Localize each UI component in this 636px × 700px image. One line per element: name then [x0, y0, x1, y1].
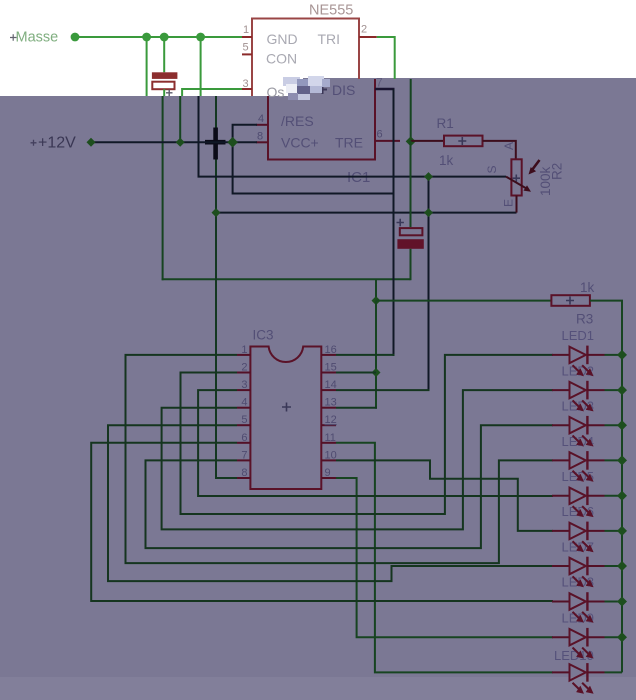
- wire IC3 pin7 to LED3: [146, 425, 554, 548]
- svg-text:R2: R2: [550, 163, 565, 180]
- capacitor C2 top plate (outline): [400, 228, 423, 235]
- junction dot E wire at masse branch: [212, 208, 221, 217]
- NE555 pin 7 DIS stub: [375, 88, 395, 90]
- wire C1 lower lead to +12V: [179, 96, 181, 142]
- wire R3 node down to IC3 pin15: [375, 301, 377, 409]
- capacitor C2 upper lead: [410, 141, 412, 227]
- svg-text:13: 13: [325, 397, 337, 409]
- svg-text:4: 4: [241, 397, 247, 409]
- svg-text:TRE: TRE: [335, 135, 363, 151]
- svg-text:3: 3: [243, 78, 249, 90]
- bottom lighter purple strip: [0, 677, 636, 700]
- wire gnd rail horizontal: [162, 278, 411, 280]
- NE555 pin 6 TRE stub: [375, 140, 400, 142]
- wire +12V horizontal: [91, 141, 257, 143]
- IC3 plus origin: [282, 403, 291, 412]
- svg-text:7: 7: [241, 449, 247, 461]
- wire pin6 node to R1: [411, 140, 444, 142]
- junction dot Masse branch 1: [142, 33, 151, 42]
- blur remnant marks left of DIS: [303, 86, 314, 89]
- wire DIS/VCC feed vertical to IC3 pin16: [393, 89, 395, 356]
- svg-text:2: 2: [361, 24, 367, 36]
- wire OUT from 555 pin3: [199, 96, 507, 177]
- svg-text:9: 9: [325, 467, 331, 479]
- svg-text:16: 16: [325, 344, 337, 356]
- counter IC3 box with notch: [250, 347, 321, 490]
- capacitor C1 bottom plate (outline): [152, 82, 174, 90]
- svg-text:Os: Os: [267, 84, 285, 100]
- resistor R3 body: [551, 295, 590, 306]
- svg-text:LED1: LED1: [562, 328, 595, 343]
- svg-text:GND: GND: [267, 31, 298, 47]
- wire C1 top lead: [163, 37, 165, 72]
- wire Masse branch 1 down: [146, 37, 148, 96]
- LED4: [552, 434, 627, 482]
- IC1 origin cross (black): [205, 128, 226, 160]
- purple region upper-right band: [303, 78, 636, 96]
- svg-text:R3: R3: [576, 312, 593, 327]
- wire R1 to pot A: [483, 141, 516, 159]
- svg-text:3: 3: [241, 379, 247, 391]
- svg-text:14: 14: [325, 379, 337, 391]
- NE555 pin 4 stub: [256, 124, 268, 126]
- wire Masse branch 2 down: [200, 37, 202, 96]
- junction dot Masse at C1: [160, 33, 169, 42]
- wire masse vertical branch 1: [162, 96, 164, 280]
- svg-text:5: 5: [243, 42, 249, 54]
- svg-text:1k: 1k: [439, 153, 454, 168]
- svg-text:TRI: TRI: [318, 31, 341, 47]
- svg-text:6: 6: [241, 432, 247, 444]
- timer IC1 NE555 box (purple layer, partially hidden): [268, 79, 375, 160]
- svg-text:A: A: [502, 142, 516, 150]
- wire masse to IC3 pin8: [216, 477, 238, 479]
- svg-text:15: 15: [325, 362, 337, 374]
- junction dot pin6/pin2 node: [406, 136, 416, 146]
- wire +12V up to pin4: [233, 125, 257, 142]
- wire gnd rail down to R3 node: [375, 279, 377, 301]
- NE555 pin 5 stub: [242, 53, 252, 55]
- svg-text:1: 1: [243, 24, 249, 36]
- wire 555 pin3 OUT: [182, 89, 242, 96]
- wire IC3 pin15 stub connect: [336, 372, 376, 374]
- NE555 pin 2 stub: [359, 36, 377, 38]
- wire IC3 pin14 to clock vertical: [336, 389, 430, 391]
- LED8: [552, 575, 627, 623]
- wire R3 to led cathode bus: [590, 301, 622, 673]
- svg-text:6: 6: [377, 129, 383, 141]
- junction dot Masse branch 2: [196, 33, 205, 42]
- IC3 right pin numbers: [325, 344, 337, 479]
- LED6: [552, 504, 627, 552]
- capacitor C2 bottom plate (filled): [397, 239, 423, 249]
- LED3: [552, 399, 627, 447]
- IC3 left pin stubs: [237, 355, 250, 478]
- wire IC3 pin11 to LED10: [336, 443, 553, 673]
- NE555 pin 1 stub: [242, 36, 252, 38]
- wire IC3 pin5 to LED7: [108, 425, 553, 581]
- Masse origin cross: [10, 34, 17, 41]
- wire 555 pin2 TRI: [377, 37, 395, 79]
- NE555 pin 3 stub: [242, 88, 252, 90]
- svg-text:12: 12: [325, 414, 337, 426]
- svg-text:7: 7: [376, 76, 383, 90]
- NE555 box (white layer): [252, 19, 359, 97]
- LED1: [552, 328, 627, 376]
- svg-text:5: 5: [241, 414, 247, 426]
- svg-text:VCC+: VCC+: [281, 135, 319, 151]
- wire IC3 pin1 to LED4: [126, 355, 554, 563]
- junction dot +12V at pin8 branch: [227, 137, 238, 148]
- blurred patch noise: [283, 76, 330, 100]
- wire +12V branch down to feed rail: [233, 142, 394, 193]
- +12V origin cross: [31, 140, 37, 146]
- wire IC3 pin2 to LED1: [181, 355, 554, 514]
- Masse wire start dot: [71, 33, 80, 42]
- capacitor C2 lower lead to gnd rail: [410, 249, 412, 280]
- wire IC3 pin10 jog to LED6: [336, 460, 553, 531]
- svg-text:DIS: DIS: [332, 82, 355, 98]
- svg-text:CON: CON: [266, 51, 297, 67]
- svg-text:2: 2: [241, 362, 247, 374]
- LED9: [552, 611, 627, 659]
- svg-text:S: S: [485, 165, 499, 173]
- junction dot at IC3 pin15: [372, 368, 381, 377]
- resistor R1 body: [444, 136, 483, 147]
- svg-text:NE555: NE555: [309, 3, 353, 19]
- wire pin2 vertical (from white zone): [410, 79, 412, 141]
- svg-text:8: 8: [241, 467, 247, 479]
- wire IC3 pin16 to +12 feed: [336, 354, 395, 356]
- wire Masse horizontal: [75, 36, 242, 38]
- wire OUT down to IC3 pin14 (clock): [428, 177, 430, 391]
- capacitor C1 plus label: [166, 90, 173, 96]
- svg-text:R1: R1: [437, 116, 454, 131]
- capacitor C1 lower stub: [163, 89, 165, 96]
- resistor R3 plus origin: [566, 297, 574, 305]
- junction dot C1 bottom: [176, 138, 185, 147]
- potentiometer R2 plus origin: [513, 175, 520, 182]
- svg-text:1: 1: [241, 344, 247, 356]
- svg-text:11: 11: [325, 432, 336, 444]
- wire masse vertical branch 2 (to IC3 pin8): [215, 96, 217, 479]
- svg-text:1k: 1k: [580, 280, 595, 295]
- R2 wiper diagonal arrow: [506, 177, 527, 189]
- junction dot R3 node: [372, 296, 381, 305]
- LED5: [552, 469, 627, 517]
- svg-text:10: 10: [325, 449, 337, 461]
- LED7: [552, 539, 627, 587]
- svg-text:8: 8: [257, 131, 263, 143]
- LED10: [552, 648, 622, 694]
- LED2: [552, 363, 627, 411]
- wire IC3 pin4 to LED2: [162, 390, 553, 529]
- NE555 pin 8 stub: [256, 141, 268, 143]
- capacitor C1 top plate (filled): [152, 72, 178, 79]
- svg-text:+12V: +12V: [38, 135, 76, 152]
- svg-text:/RES: /RES: [281, 113, 314, 129]
- LED emission arrows overlay: [573, 365, 594, 693]
- wire IC3 pin9 to LED9: [336, 478, 553, 637]
- R2 adjust arrow: [532, 160, 540, 170]
- wire pot E down and left: [516, 196, 518, 213]
- IC3 right pin stubs: [321, 355, 336, 478]
- wire IC3 pin13 stub connect: [336, 407, 377, 409]
- svg-text:4: 4: [258, 113, 264, 125]
- potentiometer R2 body: [511, 159, 521, 195]
- wire IC3 pin6 to LED8: [91, 443, 553, 601]
- junction dot OUT/S wire: [424, 172, 433, 181]
- wire node to R3 left: [376, 300, 551, 302]
- junction dot +12V left end: [87, 138, 96, 147]
- svg-text:Masse: Masse: [16, 30, 59, 46]
- wire pot E to gnd horizontal: [216, 212, 517, 214]
- svg-text:E: E: [502, 199, 516, 207]
- junction dot E wire at clock vertical: [424, 208, 433, 217]
- svg-text:IC3: IC3: [253, 328, 274, 343]
- capacitor C2 plus label: [397, 219, 404, 226]
- IC3 left pin numbers: [241, 344, 247, 479]
- resistor R1 plus origin: [458, 137, 466, 145]
- wire IC3 pin3 to LED5: [198, 390, 553, 496]
